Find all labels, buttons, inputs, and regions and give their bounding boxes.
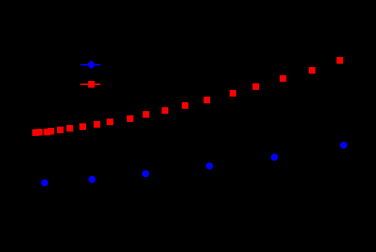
- legend red square marker: [88, 81, 95, 88]
- blue data series (circles): [41, 142, 347, 187]
- legend red errorbar key line: [80, 83, 100, 85]
- red data series (squares): [32, 57, 343, 136]
- legend blue circle marker: [88, 61, 95, 68]
- legend blue errorbar key line: [80, 64, 100, 66]
- legend red errorbar key vertical: [90, 81, 92, 88]
- legend blue errorbar key vertical: [90, 61, 92, 69]
